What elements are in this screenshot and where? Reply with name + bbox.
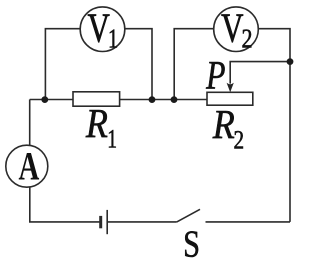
svg-text:1: 1 [107,125,117,153]
svg-text:R: R [212,103,235,148]
svg-text:2: 2 [234,126,245,154]
svg-text:P: P [205,53,225,98]
svg-text:A: A [19,144,40,189]
svg-text:R: R [85,102,108,147]
svg-text:1: 1 [108,25,118,54]
svg-text:S: S [183,223,200,258]
svg-text:V: V [221,5,243,50]
svg-text:2: 2 [242,24,253,54]
svg-text:V: V [88,5,110,50]
